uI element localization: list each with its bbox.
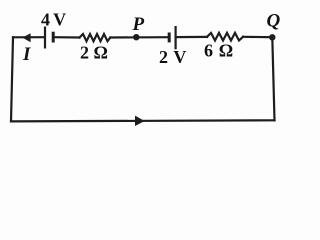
wire left vertical — [11, 37, 13, 121]
wire resistor2 to battery2V via node P — [110, 36, 169, 38]
bottom current arrow (points right) — [135, 116, 145, 126]
svg-text:I: I — [22, 44, 31, 65]
wire top-left segment — [13, 36, 45, 38]
svg-text:Q: Q — [267, 10, 281, 31]
battery B1 4V long plate — [44, 27, 46, 49]
battery B1 4V short plate — [52, 32, 55, 43]
wire bottom — [11, 120, 275, 121]
svg-text:6 Ω: 6 Ω — [204, 41, 234, 61]
svg-text:2 V: 2 V — [159, 47, 187, 67]
resistor R1 2ohm zigzag — [80, 34, 111, 41]
wire resistor6 to node Q — [243, 36, 272, 39]
svg-text:P: P — [132, 14, 145, 35]
current arrow I (points left) — [22, 33, 30, 42]
wire battery2V to resistor6 — [176, 36, 207, 38]
resistor R2 6ohm zigzag — [207, 33, 243, 41]
node P junction dot — [133, 34, 139, 40]
wire right vertical — [272, 37, 274, 120]
node Q junction dot — [269, 34, 275, 40]
battery B2 2V short plate — [168, 33, 171, 43]
svg-text:2 Ω: 2 Ω — [80, 42, 108, 62]
svg-text:4 V: 4 V — [41, 9, 66, 29]
battery B2 2V long plate — [175, 26, 177, 49]
wire battery4V to resistor2 — [53, 36, 79, 38]
